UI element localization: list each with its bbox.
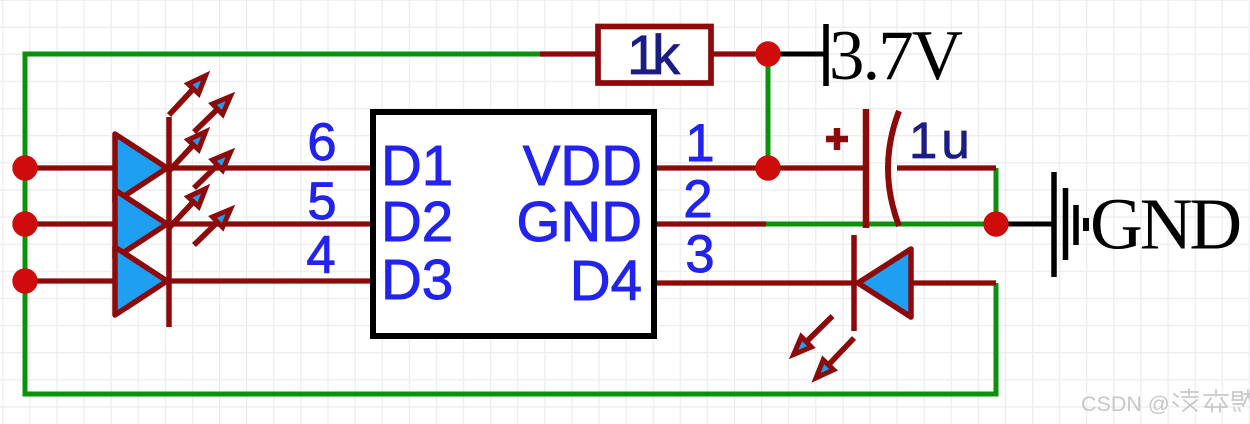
svg-text:D4: D4: [570, 249, 642, 312]
wire: LED4 anode to right elbow: [909, 280, 996, 285]
watermark CSDN: [1081, 389, 1250, 416]
svg-text:2: 2: [683, 170, 712, 229]
LED 2 (middle left): [115, 132, 230, 258]
wire: resistor right stub to junction: [712, 51, 768, 56]
svg-text:D2: D2: [381, 190, 453, 253]
wire: black to power flag: [768, 52, 826, 57]
capacitor C1 1u polarized: [826, 109, 974, 228]
wire: row D2 left: [25, 221, 370, 226]
wire: black to ground symbol: [996, 222, 1054, 227]
wire: green capacitor right elbow: [994, 168, 999, 224]
wire: GND pin stub: [657, 221, 766, 226]
LED 4 (right, pointing left): [794, 235, 911, 378]
svg-text:1k: 1k: [627, 23, 681, 86]
wire: VDD pin stub to capacitor: [657, 165, 866, 170]
svg-text:5: 5: [307, 172, 336, 231]
wire: row D3 left: [25, 278, 370, 283]
svg-text:1u: 1u: [909, 112, 974, 169]
junction (GND net): [983, 211, 1008, 236]
wire: capacitor right lead: [897, 165, 996, 170]
wire: row D1 left: [25, 165, 370, 170]
IC U1 box: [373, 112, 654, 336]
LED cluster common cathode bar: [166, 117, 172, 327]
wire: D4 pin stub to LED: [657, 280, 860, 285]
junction (D1 row): [12, 155, 37, 180]
svg-text:CSDN @: CSDN @: [1081, 392, 1170, 416]
LED 1 (top left): [115, 76, 230, 202]
svg-text:GND: GND: [516, 190, 642, 253]
resistor R1 1k: [598, 23, 711, 86]
svg-text:VDD: VDD: [523, 134, 642, 197]
junction (resistor / 3.7V): [755, 41, 780, 66]
ground GND symbol: [1054, 172, 1239, 277]
svg-text:1: 1: [685, 114, 714, 173]
svg-text:3: 3: [685, 225, 714, 284]
wire: green net top/left/bottom bus: [25, 54, 996, 394]
junction (D2 row): [12, 211, 37, 236]
wire: green VDD vertical from resistor junction to VDD pin: [766, 54, 771, 168]
wire: green GND row: [766, 222, 996, 227]
svg-text:4: 4: [306, 226, 335, 285]
junction (D3 row): [12, 268, 37, 293]
svg-text:3.7V: 3.7V: [829, 17, 963, 95]
wire: resistor left stub: [540, 51, 597, 56]
svg-text:D3: D3: [381, 248, 453, 311]
power +3.7V flag: [826, 17, 963, 95]
svg-text:D1: D1: [381, 134, 453, 197]
svg-text:GND: GND: [1090, 184, 1239, 265]
junction (VDD pin): [755, 155, 780, 180]
LED 3 (bottom left): [115, 189, 230, 315]
svg-text:6: 6: [307, 113, 336, 172]
